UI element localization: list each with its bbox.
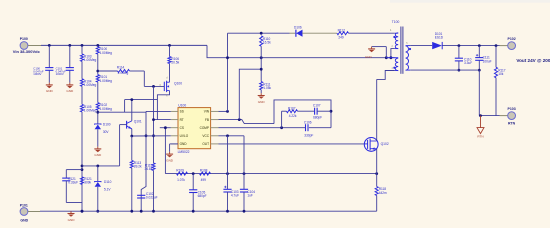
resistor R100 — [96, 47, 112, 55]
wire C103 column — [227, 136, 229, 190]
svg-text:1000V: 1000V — [33, 72, 41, 76]
junction R115 bottom rail — [152, 210, 155, 213]
wire R117 to return — [495, 78, 497, 116]
svg-text:16.5k: 16.5k — [263, 41, 271, 45]
resistor R111 — [260, 58, 262, 82]
svg-text:VIN: VIN — [204, 110, 210, 114]
polarity dot aux — [393, 67, 395, 69]
wire R114 to corner — [130, 70, 145, 72]
svg-text:C106: C106 — [304, 121, 312, 125]
polarity dot secondary — [409, 48, 411, 50]
wire FB to divider — [239, 69, 261, 119]
wire D106 to R112 gray — [302, 32, 337, 34]
junction CS corner — [164, 126, 167, 129]
resistor R114 — [117, 65, 130, 75]
wire Vout line — [442, 45, 499, 47]
capacitor C103 plates — [223, 186, 239, 198]
wire Q100 gate — [144, 85, 164, 87]
ground symbol transformer — [368, 47, 375, 53]
junction collector link — [130, 98, 133, 101]
capacitor C100 plates — [45, 68, 53, 71]
port P100 circle — [20, 42, 28, 50]
wire R111 to ground — [260, 90, 262, 93]
svg-text:SS: SS — [180, 110, 184, 114]
junction riser mid rail — [226, 56, 229, 59]
capacitor C110 — [458, 46, 460, 59]
svg-text:VCC: VCC — [202, 134, 209, 138]
diode D106 — [294, 26, 303, 37]
svg-text:39.2k: 39.2k — [134, 165, 142, 169]
wire FB net — [219, 120, 275, 124]
junction C110 bottom — [458, 69, 461, 72]
svg-text:R112: R112 — [338, 28, 346, 32]
wire C104 column — [243, 136, 245, 190]
capacitor C101 plates — [66, 68, 74, 71]
svg-text:GND: GND — [180, 142, 188, 146]
ground below C101 — [66, 83, 74, 94]
svg-text:GND: GND — [46, 89, 54, 93]
resistor R102 — [96, 103, 112, 111]
svg-text:Vin 38-300Vdc: Vin 38-300Vdc — [13, 49, 41, 54]
svg-text:GND: GND — [20, 219, 28, 223]
ground below D100 — [94, 147, 102, 158]
junction R103 top — [81, 44, 84, 47]
zener diode D110 — [97, 166, 99, 182]
junction RT-UVLO cross — [152, 134, 155, 137]
wire collector cross-link — [125, 99, 158, 101]
svg-text:D106: D106 — [294, 26, 302, 30]
wire R112 to T100 pin1 — [349, 32, 395, 34]
svg-text:1.00Meg: 1.00Meg — [84, 83, 97, 87]
resistor R117 load — [495, 46, 497, 68]
wire chain2 tap to SS — [98, 111, 146, 113]
zener diode D100 — [95, 123, 111, 134]
ground below U100 — [166, 152, 174, 163]
svg-text:1.00Meg: 1.00Meg — [84, 109, 97, 113]
junction R107 drop — [280, 126, 283, 129]
wire UVLO tap horizontal — [82, 165, 120, 167]
junction sense node — [375, 172, 378, 175]
capacitor C101 — [69, 45, 71, 67]
capacitor C102 — [137, 192, 158, 200]
T100 secondary winding — [406, 46, 409, 70]
svg-text:309k: 309k — [84, 180, 91, 184]
wire clamp line — [228, 32, 290, 34]
junction divider mid — [260, 68, 263, 71]
junction SS-UVLO cross — [145, 134, 148, 137]
svg-text:1uF: 1uF — [247, 194, 253, 198]
U100 pin name labels — [180, 110, 210, 147]
resistor R101 — [96, 75, 112, 83]
wire IC GND pin — [170, 143, 178, 145]
svg-text:Q100: Q100 — [174, 81, 182, 85]
svg-text:1.00Meg: 1.00Meg — [84, 58, 97, 62]
capacitor C111 plates — [475, 54, 491, 63]
svg-text:680pF: 680pF — [313, 115, 322, 119]
svg-text:P100: P100 — [20, 37, 28, 41]
svg-text:1000V: 1000V — [56, 72, 64, 76]
wire sec bottom tail — [406, 69, 411, 71]
wire pin4 tail — [395, 70, 399, 72]
wire R110 to rail — [260, 46, 262, 58]
resistor R106 — [169, 45, 171, 56]
svg-text:Q102: Q102 — [381, 142, 389, 146]
junction D110 bottom rail — [96, 210, 99, 213]
junction C110 top — [458, 44, 461, 47]
svg-text:442m: 442m — [379, 191, 387, 195]
resistor R111 zigzag — [260, 82, 272, 91]
svg-text:D110: D110 — [104, 180, 112, 184]
svg-text:GND: GND — [258, 100, 266, 104]
svg-text:4.22k: 4.22k — [289, 114, 297, 118]
svg-text:GND: GND — [68, 218, 76, 222]
svg-text:COMP: COMP — [200, 126, 209, 130]
junction C103 cross — [226, 172, 229, 175]
junction R113 bottom rail — [130, 210, 133, 213]
svg-text:10k: 10k — [498, 72, 504, 76]
junction C104 cross — [243, 172, 246, 175]
junction FB divider tap — [238, 118, 241, 121]
resistor R113 — [130, 161, 142, 169]
polarity dot primary — [393, 36, 395, 38]
junction RTN symbol — [479, 114, 482, 117]
op-amp U100 LM5022 controller IC body — [178, 108, 211, 149]
resistor R117 zigzag — [494, 67, 505, 78]
wire link riser to chain2 tap — [124, 100, 126, 113]
svg-text:Q101: Q101 — [134, 120, 142, 124]
wire R101-R102 — [97, 82, 99, 103]
transistor Q101 BJT — [127, 120, 142, 129]
resistor R104 — [80, 79, 96, 87]
capacitor C107 plates — [315, 108, 318, 115]
capacitor C121 branch — [66, 169, 82, 171]
ground symbol on bottom rail — [68, 211, 76, 222]
wire return to P103 — [478, 70, 480, 116]
port P103 circle — [508, 112, 516, 120]
junction D110 top — [96, 165, 99, 168]
wire Q102 drain riser — [376, 79, 378, 141]
svg-text:FB: FB — [205, 118, 209, 122]
junction chain1 bottom rail — [81, 210, 84, 213]
wire Q100 source routing — [157, 91, 169, 120]
resistor R106 zigzag — [168, 57, 180, 65]
junction R110 top — [260, 32, 263, 35]
resistor R121 zigzag — [80, 177, 92, 185]
ground below R111 — [258, 93, 266, 104]
junction R117 top — [495, 44, 498, 47]
svg-text:D100: D100 — [103, 123, 111, 127]
junction R100 top — [96, 44, 99, 47]
capacitor C111 polarized — [478, 46, 480, 58]
transistor Q102 power MOSFET — [364, 138, 389, 152]
junction R121 bottom — [81, 210, 84, 213]
capacitor C121 plates — [62, 177, 78, 185]
resistor R110 zigzag — [260, 36, 271, 46]
wire R107 C107 branch — [281, 111, 283, 128]
wire pin2 tail — [395, 48, 399, 50]
junction UVLO tap — [81, 165, 84, 168]
svg-text:ES1D: ES1D — [435, 36, 444, 40]
wire D110 to bottom rail — [97, 187, 99, 211]
junction C104 bottom rail — [243, 210, 246, 213]
wire down to Q100 gate — [143, 71, 145, 86]
svg-text:R109: R109 — [176, 169, 184, 173]
svg-text:RTN: RTN — [477, 134, 483, 138]
resistor R114 horizontal — [98, 70, 118, 72]
wire sense bottom — [376, 196, 378, 212]
junction C111 top — [478, 44, 481, 47]
svg-text:GND: GND — [66, 89, 74, 93]
svg-text:CS: CS — [180, 126, 184, 130]
resistor R118 zigzag — [375, 187, 387, 196]
svg-text:4.7uF: 4.7uF — [231, 194, 239, 198]
wire mid rail y57.7 — [207, 45, 395, 57]
wire R104-R105 — [81, 86, 83, 104]
wire D100 to ground — [97, 129, 99, 146]
resistor R103 — [80, 54, 96, 62]
junction C102 bottom rail — [140, 210, 143, 213]
junction comp node — [330, 110, 333, 113]
junction Q101 emitter / R113 / UVLO — [130, 135, 133, 138]
junction C100 top — [48, 44, 51, 47]
junction R110 bottom — [260, 56, 263, 59]
junction C103 bottom rail — [226, 210, 229, 213]
resistor R107 — [287, 106, 298, 118]
svg-text:0.33uF: 0.33uF — [68, 180, 78, 184]
T100 primary winding — [395, 33, 398, 49]
wire chain2 column x97.8 — [97, 45, 99, 46]
svg-text:0.022uF: 0.022uF — [146, 196, 158, 200]
svg-text:LM5022: LM5022 — [178, 150, 190, 154]
svg-text:1.05k: 1.05k — [263, 86, 271, 90]
svg-text:R114: R114 — [117, 65, 125, 69]
wire pin4 to Q102 drain — [377, 71, 395, 80]
resistor R108 — [200, 169, 211, 182]
svg-text:30V: 30V — [103, 130, 110, 134]
svg-text:GND: GND — [365, 55, 373, 59]
U100 pin stubs — [171, 111, 219, 143]
wire secondary to D101 — [410, 45, 432, 47]
diode D101 — [432, 32, 444, 50]
wire sense top — [376, 174, 378, 187]
svg-text:OUT: OUT — [202, 142, 209, 146]
transformer core — [401, 27, 403, 74]
capacitor C106 plates — [306, 124, 309, 131]
wire Q102 source drop — [376, 149, 378, 174]
wire R103-R104 — [81, 61, 83, 78]
resistor R105 — [80, 104, 96, 112]
svg-text:330pF: 330pF — [304, 133, 313, 137]
svg-text:T100: T100 — [392, 20, 400, 24]
junction C105 bottom rail — [192, 210, 195, 213]
junction gate / RT column — [152, 85, 155, 88]
wire pin2 to mid rail — [391, 49, 395, 58]
svg-text:5.1V: 5.1V — [104, 188, 111, 192]
wire R102 to D100 — [97, 110, 99, 124]
wire OUT gate drive — [219, 143, 365, 145]
svg-text:2.0Meg: 2.0Meg — [118, 71, 129, 75]
svg-text:680pF: 680pF — [198, 194, 207, 198]
svg-text:P102: P102 — [508, 37, 516, 41]
junction R114 tap — [96, 70, 99, 73]
T100 aux winding — [395, 58, 398, 70]
ground below C100 — [46, 83, 54, 94]
ground at transformer — [372, 46, 387, 48]
wire tap riser to Q101 base — [119, 125, 121, 166]
junction chain2 tap — [96, 111, 99, 114]
resistor R112 — [337, 28, 349, 39]
wire secondary return rail — [410, 69, 479, 71]
port P102 circle — [508, 42, 516, 50]
svg-text:R107: R107 — [288, 106, 296, 110]
wire R105 down to bottom rail — [81, 112, 83, 211]
svg-text:Vout 24V @ 200m: Vout 24V @ 200m — [516, 58, 550, 63]
junction VCC split — [226, 134, 229, 137]
zener D110 symbol — [95, 180, 112, 191]
svg-text:GND: GND — [94, 153, 102, 157]
wire CS net — [160, 127, 171, 129]
wire RT net — [154, 119, 171, 121]
junction C121 branch — [81, 168, 84, 171]
wire COMP net — [219, 127, 306, 129]
junction C111 bottom — [478, 69, 481, 72]
junction R106 top — [168, 44, 171, 47]
wire chain1 column x82 — [81, 45, 83, 54]
svg-text:UVLO: UVLO — [180, 134, 189, 138]
wire riser x227.5 — [227, 33, 229, 111]
svg-text:100uF: 100uF — [483, 59, 492, 63]
wire R113 bottom — [131, 168, 133, 211]
junction RT corner — [152, 118, 155, 121]
wire sec top tail — [406, 45, 411, 47]
svg-text:RT: RT — [180, 118, 184, 122]
wire Q101 base — [120, 124, 127, 126]
capacitor C104 plates — [240, 189, 255, 197]
wire port P100 stub — [28, 45, 41, 47]
svg-text:34.8k: 34.8k — [144, 167, 152, 171]
wire R115 to rail — [153, 171, 155, 212]
wire VCC net — [219, 135, 245, 137]
junction pin2 mid rail — [390, 56, 393, 59]
wire P102 stub — [500, 45, 508, 47]
svg-text:1.07k: 1.07k — [177, 178, 185, 182]
wire gate inside — [364, 143, 367, 145]
svg-text:3.3uF: 3.3uF — [464, 61, 472, 65]
junction C101 top — [68, 44, 71, 47]
port P101 circle — [20, 208, 28, 216]
svg-text:1.00Meg: 1.00Meg — [100, 79, 113, 83]
wire top Vin rail — [41, 44, 207, 46]
wire pin1 tail — [395, 32, 399, 34]
wire RT column — [153, 86, 155, 163]
wire bottom ground rail — [40, 210, 377, 212]
wire Q101 emitter down — [131, 129, 133, 136]
wire SS net — [146, 110, 171, 112]
capacitor C100 — [48, 45, 50, 67]
svg-text:499: 499 — [201, 178, 207, 182]
wire R106 to Q100 drain — [169, 64, 171, 83]
wire port P101 stub — [28, 211, 40, 213]
svg-text:1.00Meg: 1.00Meg — [100, 51, 113, 55]
capacitor C105 — [192, 174, 194, 190]
wire R100-R101 — [97, 54, 99, 75]
wire UVLO net — [132, 135, 171, 137]
wire pin3 tail — [386, 57, 398, 59]
wire current sense line — [165, 173, 376, 175]
svg-text:C107: C107 — [313, 104, 321, 108]
svg-text:1.00Meg: 1.00Meg — [100, 107, 113, 111]
junction gnd riser — [385, 56, 388, 59]
svg-text:P103: P103 — [508, 107, 516, 111]
wire FB compensation loop — [274, 100, 331, 128]
capacitor C110 plates — [455, 57, 472, 65]
svg-text:R108: R108 — [200, 169, 208, 173]
RTN net symbol — [477, 116, 484, 139]
capacitor C105 plates — [189, 190, 207, 198]
junction C105 top — [192, 172, 195, 175]
junction VIN pin — [226, 110, 229, 113]
svg-text:20.5k: 20.5k — [171, 61, 179, 65]
svg-text:P101: P101 — [20, 203, 28, 207]
transistor Q100 MOSFET — [164, 81, 182, 92]
svg-text:249: 249 — [338, 35, 344, 39]
resistor R115 — [144, 163, 155, 171]
svg-text:RTN: RTN — [508, 122, 516, 126]
wire Q101 collector riser — [131, 100, 133, 121]
svg-text:U100: U100 — [178, 103, 186, 107]
wire R113 top — [131, 136, 133, 161]
wire VIN pin to rail riser — [219, 110, 228, 112]
svg-text:GND: GND — [166, 158, 174, 162]
resistor R109 — [176, 169, 187, 182]
